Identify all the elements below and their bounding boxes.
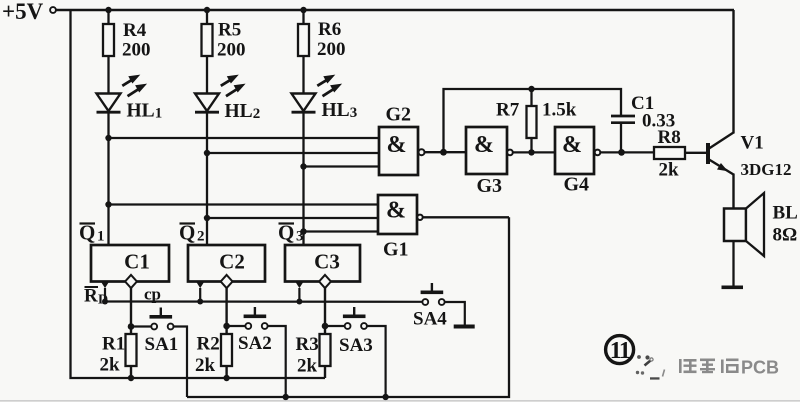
- capacitor C1: [611, 93, 675, 152]
- wire cp C2 drop: [225, 288, 227, 334]
- flip-flop C1: [91, 245, 169, 282]
- svg-text:200: 200: [217, 40, 246, 61]
- +5V terminal: [50, 7, 56, 13]
- svg-text:SA4: SA4: [413, 309, 447, 330]
- node R7 top junction: [528, 86, 534, 92]
- svg-text:R8: R8: [658, 127, 681, 148]
- svg-text:11: 11: [610, 338, 630, 364]
- node RD C2: [197, 299, 203, 305]
- svg-text:G3: G3: [477, 175, 503, 197]
- node R4 top junction: [105, 7, 111, 13]
- svg-text:HL3: HL3: [322, 100, 358, 121]
- wire G1 input 1: [109, 203, 379, 205]
- wire G2 input 2: [207, 152, 379, 154]
- svg-text:&: &: [386, 198, 406, 224]
- resistor R7: [496, 89, 577, 152]
- wire HL1 cathode down to C1: [107, 112, 109, 245]
- node C1 bottom junction: [618, 149, 625, 156]
- resistor R1: [100, 334, 137, 379]
- switch SA2: [244, 307, 268, 329]
- wire cp C1 drop: [130, 288, 132, 334]
- pin cp C3: [319, 275, 331, 288]
- wire G1 input 3: [304, 230, 379, 232]
- svg-text:SA3: SA3: [339, 335, 373, 356]
- wire SA4 to ground: [444, 302, 464, 325]
- wire cp1 to SA1: [131, 325, 151, 327]
- wire left rail: [71, 10, 326, 378]
- wire RD bus: [105, 300, 422, 302]
- transistor V1: [706, 10, 792, 209]
- svg-text:R4: R4: [123, 20, 147, 41]
- svg-text:2k: 2k: [659, 160, 680, 181]
- wire R4 to HL1: [107, 56, 109, 94]
- node Q3/G1 junction: [300, 228, 306, 234]
- svg-text:&: &: [387, 132, 407, 158]
- LED HL1: [97, 75, 148, 113]
- nand gate G1: [378, 195, 423, 261]
- svg-text:G1: G1: [383, 239, 409, 261]
- node R1 bottom: [128, 375, 134, 381]
- pin cp C1: [125, 275, 137, 288]
- svg-text:200: 200: [317, 39, 346, 60]
- pin RD C3: [295, 282, 303, 289]
- svg-text:V1: V1: [741, 133, 764, 154]
- LED HL2: [195, 75, 246, 113]
- svg-text:3: 3: [296, 229, 304, 245]
- node Q1/G1 junction: [105, 201, 111, 207]
- LED HL3: [292, 75, 343, 113]
- resistor R2: [195, 334, 232, 379]
- label RD bar: [84, 286, 108, 308]
- wire SA2 to bus2: [268, 326, 286, 397]
- wire R5 top: [206, 10, 208, 24]
- wire bus2: [187, 217, 509, 397]
- node cp1/SA1 junction: [128, 323, 135, 330]
- svg-text:&: &: [474, 132, 494, 158]
- node R7 bottom junction: [528, 149, 534, 155]
- svg-text:R2: R2: [197, 334, 220, 355]
- svg-text:R3: R3: [296, 334, 319, 355]
- node RD C1: [102, 299, 108, 305]
- wire feedback top: [444, 89, 622, 152]
- watermark logo: [636, 355, 665, 379]
- wire SA1 to bus2: [173, 327, 187, 398]
- node R2 bottom: [223, 375, 229, 381]
- svg-text:&: &: [562, 132, 582, 158]
- svg-text:BL: BL: [773, 203, 798, 224]
- svg-text:+5V: +5V: [2, 0, 44, 24]
- svg-text:2k: 2k: [100, 355, 121, 376]
- flip-flop C2: [188, 245, 265, 282]
- nand gate G4: [555, 127, 600, 196]
- resistor R8: [654, 127, 706, 181]
- switch SA4: [421, 283, 445, 305]
- resistor R5: [202, 24, 213, 56]
- speaker BL: [724, 193, 798, 286]
- svg-text:R: R: [84, 286, 98, 307]
- node SA2 bus2: [283, 394, 289, 400]
- wire R6 top: [302, 10, 304, 24]
- wire SA3 to bus2: [367, 326, 386, 397]
- svg-text:HL2: HL2: [225, 101, 261, 122]
- svg-text:C2: C2: [219, 250, 245, 274]
- svg-text:PCB: PCB: [741, 358, 779, 378]
- node HL3/G2 junction: [300, 163, 306, 169]
- wire cp2 to SA2: [227, 325, 246, 327]
- node G2 output junction: [440, 149, 447, 156]
- svg-text:C1: C1: [124, 250, 150, 274]
- wire G3 output: [513, 151, 555, 153]
- svg-text:200: 200: [122, 40, 151, 61]
- svg-text:HL1: HL1: [127, 101, 163, 122]
- pin cp C2: [221, 275, 233, 288]
- svg-text:1.5k: 1.5k: [542, 100, 577, 121]
- wire R6 to HL3: [302, 56, 304, 94]
- wire G2 input 1: [109, 137, 380, 139]
- node SA3 bus2: [382, 394, 388, 400]
- wire R4 top: [107, 10, 109, 24]
- wire G1 output: [423, 216, 509, 218]
- svg-text:SA1: SA1: [145, 334, 179, 355]
- svg-text:G2: G2: [386, 104, 412, 126]
- wire HL3 cathode down to C3: [302, 112, 304, 245]
- ground SA4: [454, 325, 475, 329]
- wire RD C1 drop: [104, 288, 106, 302]
- nand gate G2: [379, 104, 425, 176]
- svg-text:2: 2: [197, 229, 205, 245]
- svg-text:R6: R6: [318, 19, 341, 40]
- node R6 top junction: [300, 7, 306, 13]
- wire G2 input 3: [304, 165, 380, 167]
- svg-text:R1: R1: [102, 334, 125, 355]
- resistor R4: [103, 24, 114, 56]
- node HL2/G2 junction: [204, 150, 210, 156]
- svg-text:SA2: SA2: [238, 333, 272, 354]
- resistor R6: [298, 24, 309, 56]
- pin RD C2: [196, 282, 204, 289]
- watermark text: [679, 358, 779, 378]
- flip-flop C3: [285, 245, 360, 282]
- label Q3 bar: [278, 221, 304, 245]
- label Q1 bar: [79, 221, 105, 245]
- wire RD C2 drop: [199, 288, 201, 302]
- nand gate G3: [466, 127, 513, 197]
- node RD C3: [296, 299, 302, 305]
- switch SA3: [343, 307, 367, 329]
- wire G1 input 2: [207, 217, 378, 219]
- wire cp3 to SA3: [325, 325, 345, 327]
- wire RD C3 drop: [298, 288, 300, 302]
- scan line bottom: [0, 400, 800, 401]
- resistor R3: [296, 334, 331, 378]
- node cp2/SA2 junction: [223, 323, 230, 330]
- svg-text:R7: R7: [496, 100, 520, 121]
- node HL1/G2 junction: [105, 135, 111, 141]
- switch SA1: [150, 308, 174, 330]
- node Q2/G1 junction: [204, 215, 210, 221]
- svg-text:2k: 2k: [297, 356, 318, 377]
- ground speaker: [722, 286, 744, 290]
- wire G4 output: [600, 151, 654, 153]
- label Q2 bar: [179, 221, 205, 245]
- svg-text:G4: G4: [564, 174, 590, 196]
- svg-text:2k: 2k: [195, 355, 216, 376]
- wire G2 output: [425, 151, 467, 153]
- wire R5 to HL2: [206, 56, 208, 94]
- circled number 11: [606, 336, 634, 364]
- wire cp C3 drop: [324, 288, 326, 334]
- svg-text:C3: C3: [314, 250, 340, 274]
- svg-text:3DG12: 3DG12: [741, 160, 792, 179]
- svg-text:R5: R5: [218, 20, 241, 41]
- svg-text:8Ω: 8Ω: [773, 225, 798, 246]
- pin RD C1: [101, 282, 109, 289]
- svg-text:1: 1: [97, 229, 105, 245]
- wire HL2 cathode down to C2: [206, 112, 208, 245]
- node R5 top junction: [204, 7, 210, 13]
- node cp3/SA3 junction: [322, 323, 329, 330]
- wire top rail: [56, 9, 734, 12]
